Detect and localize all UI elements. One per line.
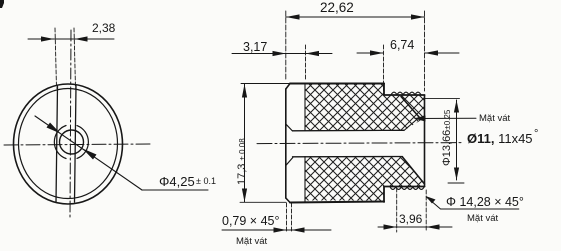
bottom edge (290, 202, 384, 203)
svg-text:± 0.1: ± 0.1 (196, 176, 216, 186)
dim 17.3 arrow bottom (242, 189, 247, 203)
dim 0.79 ext2 (291, 203, 293, 232)
dim 6.74 arrow2 (425, 50, 439, 55)
right section top edge (384, 94, 425, 96)
dim 17.3 line (244, 84, 246, 202)
dim 0.79 arrow1 (274, 227, 287, 232)
dim 2.38 arrow left (41, 36, 54, 41)
dim phi13.66 arrow top (454, 100, 459, 113)
svg-text:0,79 × 45°: 0,79 × 45° (222, 214, 279, 228)
slot edge right (75, 86, 77, 202)
dim 17.3 ext bottom (240, 201, 286, 203)
svg-text:2,38: 2,38 (92, 21, 116, 35)
dim 3.96 arrow left (384, 224, 397, 229)
hole circle (60, 130, 84, 154)
hatch top-right wedge (384, 95, 425, 131)
dim phi13.66 ext top (425, 98, 460, 100)
dim 3.96 arrow right (426, 224, 439, 229)
dim 3.17 line (232, 53, 332, 55)
dim 3.96 line (378, 226, 452, 228)
dim 2.38 line (28, 38, 114, 40)
small diag to arrow point (404, 118, 419, 131)
svg-text:Φ 14,28 × 45°: Φ 14,28 × 45° (446, 195, 524, 209)
right edge (424, 95, 426, 187)
svg-text:Φ13,66±0.25: Φ13,66±0.25 (441, 109, 453, 166)
vertical center line (70, 30, 71, 218)
dim 3.96 ext left (396, 188, 398, 232)
channel bottom line (293, 156, 403, 158)
dim 2.38 arrow right (75, 36, 88, 41)
wavy top (391, 92, 421, 95)
dim 3.96 ext right (425, 190, 427, 232)
scan corner mark (0, 0, 4, 8)
dim 22.62 ext right (424, 11, 426, 91)
outer circle (14, 84, 123, 204)
dim 0.79 arrow2 (292, 227, 305, 232)
left edge (285, 89, 287, 198)
dim 22.62 ext left (285, 11, 287, 80)
dim phi13.66 arrow bottom (454, 168, 459, 181)
horizontal center line (4, 144, 152, 145)
leader phi4.25 arrow upper (47, 123, 61, 134)
dim 6.74 line right part (425, 52, 460, 54)
dim 3.17 arrow2 (306, 51, 320, 56)
wavy bottom (390, 187, 424, 190)
body left boundary bottom (304, 157, 306, 202)
hatch bottom band (305, 157, 384, 201)
channel top line (293, 129, 405, 132)
dim 22.62 arrow left (286, 14, 300, 19)
bottom chamfer line (403, 157, 425, 184)
label mat vat top-right leader (416, 117, 476, 119)
flare arc left (54, 126, 66, 159)
dim phi13.66 line (456, 100, 458, 180)
step top vertical (383, 84, 385, 96)
top chamfer line (401, 97, 420, 118)
dim 3.17 arrow (273, 51, 286, 56)
inner circle (19, 89, 118, 199)
dim 6.74 ext (383, 45, 385, 95)
leader phi4.25 diagonal (35, 116, 142, 190)
step bottom vertical (383, 187, 385, 203)
hatch top band (305, 84, 384, 131)
flare arc right (77, 126, 88, 159)
slot edge left (56, 86, 58, 202)
svg-text:°: ° (534, 128, 538, 140)
dim 6.74 line left part (357, 52, 384, 54)
svg-text:3,96: 3,96 (399, 212, 423, 226)
flare bottom (286, 158, 293, 166)
hatch bottom-right wedge (384, 157, 425, 187)
svg-text:Mặt vát: Mặt vát (236, 236, 268, 247)
dim 2.38 ext line left (55, 28, 57, 88)
section center line (257, 143, 461, 144)
dim 6.74 arrow (370, 50, 384, 55)
bottom-left chamfer (286, 198, 290, 203)
svg-text:3,17: 3,17 (243, 40, 267, 54)
dim 2.38 ext line right (74, 28, 76, 88)
svg-text:6,74: 6,74 (390, 38, 414, 52)
dim 22.62 arrow right (411, 14, 425, 19)
svg-text:Mặt vát: Mặt vát (467, 213, 499, 224)
right section bottom edge (384, 186, 425, 188)
dim 0.79 line (222, 229, 331, 231)
top-left chamfer (286, 84, 290, 90)
dim 17.3 ext top (241, 83, 290, 85)
dim phi13.66 ext bottom (448, 182, 464, 184)
svg-text:22,62: 22,62 (320, 0, 354, 15)
leader phi4.25 arrow lower (83, 149, 97, 160)
svg-text:17,3 ± 0.08: 17,3 ± 0.08 (236, 138, 248, 185)
svg-text:Ø11, 11x45: Ø11, 11x45 (467, 131, 533, 146)
label mat vat top-right arrow (414, 116, 426, 122)
svg-text:Mặt vát: Mặt vát (479, 113, 511, 124)
dim 0.79 ext1 (286, 203, 288, 232)
leader phi4.25 underline (142, 189, 208, 191)
dim 22.62 line (286, 16, 425, 18)
svg-text:Φ4,25: Φ4,25 (159, 174, 195, 189)
dim 3.17 ext (305, 45, 307, 81)
top edge (290, 83, 384, 85)
label phi14.28 leader (427, 197, 519, 209)
body left boundary top (304, 84, 306, 131)
dim 17.3 arrow top (242, 84, 247, 98)
flare top (286, 124, 293, 131)
label phi14.28 leader arrow (426, 196, 436, 204)
